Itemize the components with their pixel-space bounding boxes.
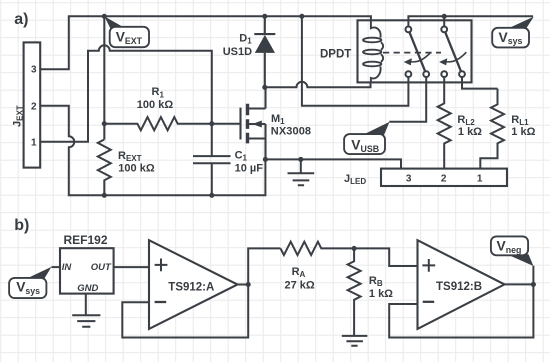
resistor R_EXT: [98, 140, 111, 196]
relay coil: [363, 21, 383, 82]
node flag V_sys section a: [492, 17, 534, 48]
node dot V_EXT on top rail: [102, 14, 107, 19]
diode D1: [254, 16, 275, 87]
node dot R1/R_EXT junction: [102, 121, 107, 126]
node flag V_sys section b: [9, 267, 51, 298]
svg-text:b): b): [14, 217, 29, 234]
wire sw2 bottom-right contact over to R_L1: [462, 77, 498, 89]
svg-text:10 µF: 10 µF: [235, 162, 264, 174]
svg-text:3: 3: [406, 174, 412, 185]
wire J_EXT pin2 to ground rail, hop over pin1 wire, bottom rail: [40, 106, 265, 196]
resistor R_L1 with leads to J_LED pin1: [480, 89, 504, 169]
wire op-amp B feedback loop: [389, 284, 533, 337]
wire V_sys flag stub section b: [51, 266, 60, 268]
resistor R_A: [281, 242, 355, 255]
node dot op-amp A output: [246, 282, 251, 287]
relay switch pole 2: [441, 27, 465, 78]
relay DPDT box: [358, 20, 472, 82]
node dot D1 cathode on top rail: [262, 14, 267, 19]
wire mid ground rail to J_LED pin3: [265, 159, 401, 168]
wire op-amp B output and V_neg stub: [505, 266, 534, 285]
wire coil bottom to D1/M1 drain node with hop: [265, 81, 371, 87]
wire J_EXT pin1 up and across with hop, down to gate/C1 node: [40, 45, 212, 156]
svg-text:DPDT: DPDT: [320, 48, 351, 60]
relay arrow 1: [404, 52, 431, 65]
node dot D1 anode / M1 drain: [262, 85, 267, 90]
resistor R_B: [348, 248, 361, 336]
svg-text:NX3008: NX3008: [271, 126, 311, 138]
svg-text:TS912:A: TS912:A: [168, 281, 214, 293]
svg-text:TS912:B: TS912:B: [436, 281, 482, 293]
wire V_sys top rail with sw1/sw2 top stubs: [408, 16, 533, 26]
IC REF192 box: [60, 248, 114, 293]
relay actuation dashed line: [383, 52, 441, 54]
op-amp U1B: [418, 240, 505, 329]
node dot R_EXT bottom: [102, 193, 107, 198]
node dot gate/C1 junction: [209, 121, 214, 126]
svg-text:IN: IN: [62, 262, 73, 273]
node dot sw2 top on V_sys rail: [442, 14, 447, 19]
node dot C1 bottom: [209, 193, 214, 198]
svg-text:a): a): [14, 11, 28, 28]
svg-text:1 kΩ: 1 kΩ: [458, 126, 482, 138]
node dot R_A/R_B junction: [352, 246, 357, 251]
node dot sw1 wire on top rail: [299, 14, 304, 19]
wire V_EXT node vertical down to R1/R_EXT junction: [103, 16, 105, 139]
svg-text:1: 1: [31, 138, 37, 149]
node dot op-amp B output V_neg: [531, 282, 536, 287]
svg-text:3: 3: [31, 65, 37, 76]
ground symbol section a: [288, 159, 315, 185]
connector J_EXT: [24, 42, 41, 167]
relay switch pole 1: [406, 27, 430, 78]
node flag V_neg: [491, 236, 534, 266]
svg-text:100 kΩ: 100 kΩ: [137, 99, 174, 111]
node dot ground a on mid rail: [298, 157, 303, 162]
node flag V_USB: [344, 122, 389, 154]
node flag V_EXT: [104, 16, 149, 47]
wire op-amp A feedback loop: [122, 285, 248, 338]
transistor M1: [241, 87, 266, 159]
svg-text:1 kΩ: 1 kΩ: [369, 288, 393, 300]
svg-text:2: 2: [441, 174, 447, 185]
wire op-amp A output up to R_A: [238, 248, 281, 284]
connector J_LED: [381, 169, 507, 186]
svg-text:100 kΩ: 100 kΩ: [118, 162, 155, 174]
svg-text:1 kΩ: 1 kΩ: [511, 126, 535, 138]
wire R_A/R_B node to op-amp B plus input: [354, 248, 417, 266]
relay arrow 2: [439, 52, 466, 65]
svg-text:REF192: REF192: [64, 233, 108, 247]
wire sw1 bottom-right contact to V_USB corner: [389, 77, 426, 122]
svg-text:2: 2: [31, 102, 37, 113]
svg-text:27 kΩ: 27 kΩ: [285, 280, 315, 292]
ground symbol below REF192: [72, 294, 100, 327]
resistor R1: [104, 117, 240, 130]
resistor R_L2 with leads from sw2 bottom-left to J_LED pin2: [438, 77, 451, 169]
svg-text:OUT: OUT: [91, 262, 112, 273]
wire sw1 bottom-left contact to V_EXT top rail: [302, 16, 409, 105]
wire J_EXT pin3 to top rail and rail to relay coil: [40, 16, 371, 69]
svg-text:US1D: US1D: [223, 46, 252, 58]
capacitor C1: [193, 156, 231, 195]
svg-text:GND: GND: [77, 283, 98, 294]
op-amp U1A: [149, 240, 238, 329]
node dot M1 source on mid rail: [263, 157, 268, 162]
ground symbol below R_B: [342, 336, 368, 346]
wire REF192 OUT to op-amp A: [114, 266, 149, 268]
svg-text:1: 1: [477, 174, 483, 185]
